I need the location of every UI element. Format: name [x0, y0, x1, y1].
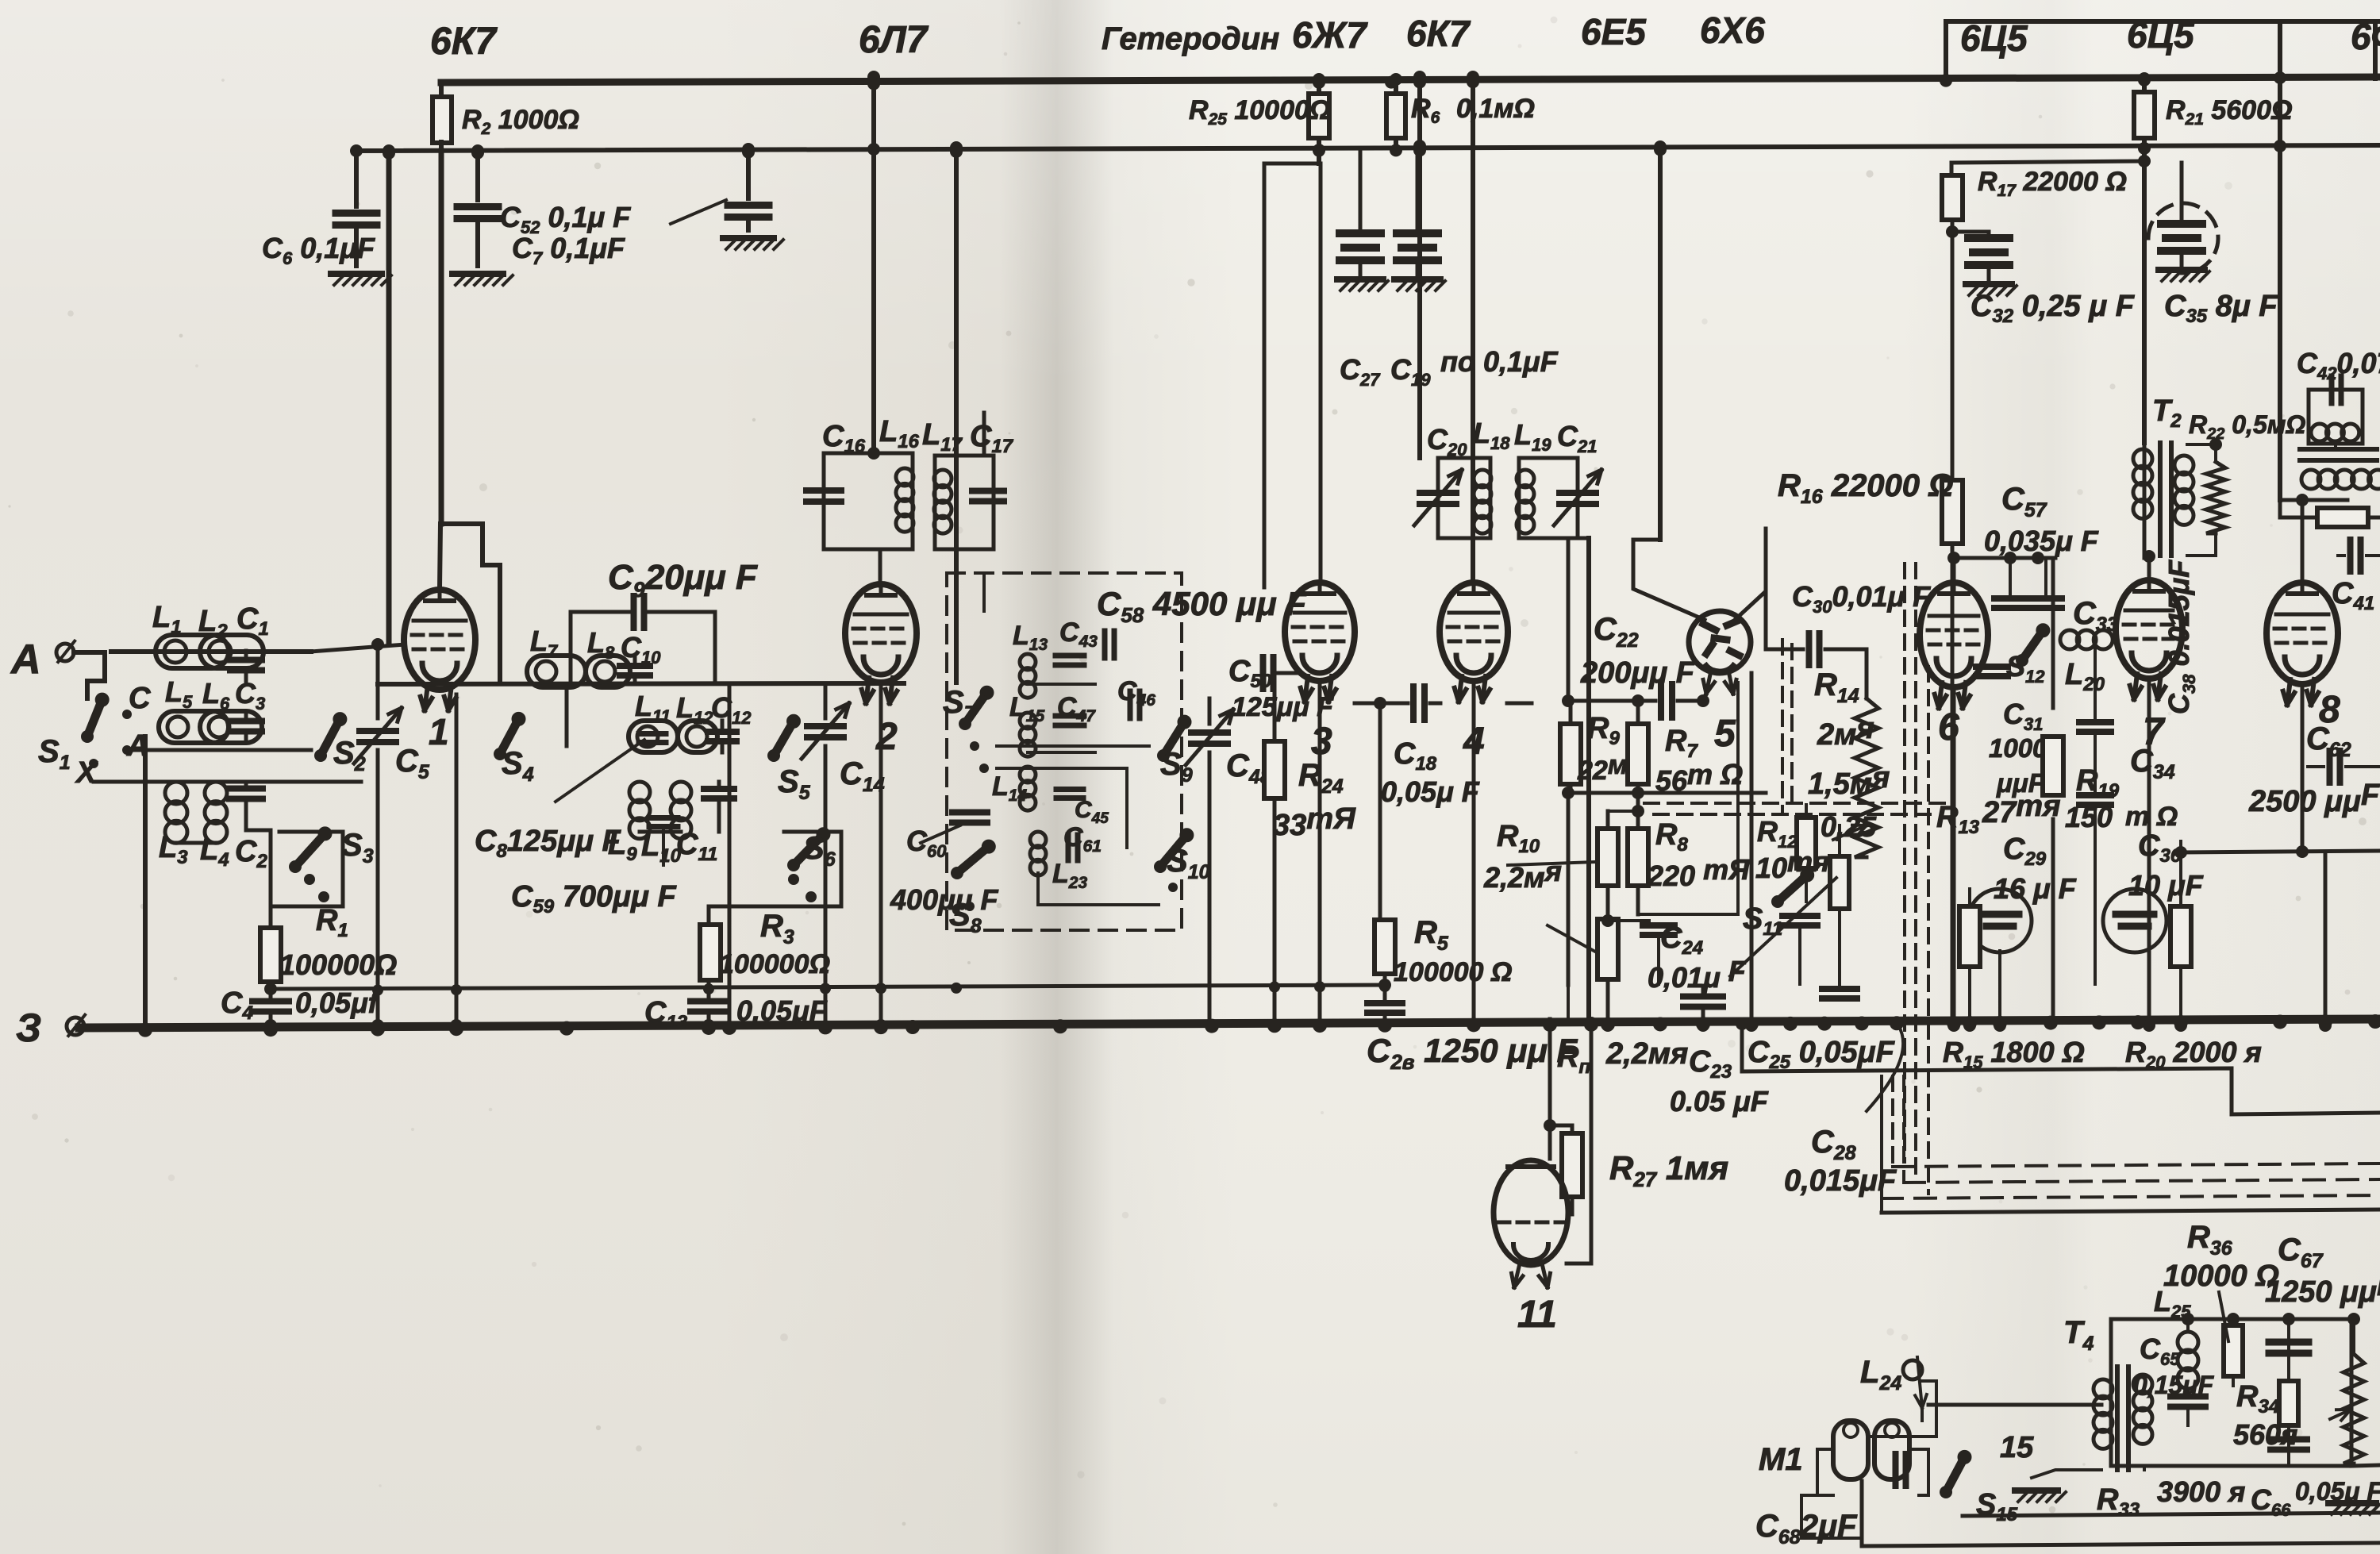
svg-text:R20 2000 я: R20 2000 я: [2125, 1036, 2262, 1072]
vacuum tube 1 (6К7): [404, 590, 475, 690]
wire: coil block joins: [176, 841, 216, 845]
ground at bottom right: [2328, 1500, 2376, 1506]
wire: stepped grid lead to tube 2: [441, 524, 500, 683]
electrolytic C29 16μF: [1968, 889, 2032, 952]
wire: network box: [2111, 1319, 2351, 1466]
wire: tube5 cathode down: [1750, 673, 1754, 1024]
wire: vertical x2702 down to T2: [2142, 161, 2147, 443]
resistor R12 10тЯ: [1797, 817, 1816, 868]
svg-text:0,035μ F: 0,035μ F: [1984, 525, 2099, 557]
wire: tube3 top lead: [1319, 565, 1323, 583]
resistor R36 10000Ω: [2224, 1325, 2243, 1376]
svg-text:6Ж7: 6Ж7: [1292, 14, 1368, 56]
wire: R9/R7 bottom join: [1568, 791, 1766, 795]
wire: tube4 connections: [1439, 702, 1440, 706]
svg-text:100000Ω: 100000Ω: [719, 949, 830, 979]
svg-text:А: А: [10, 637, 41, 683]
inductor L8: [586, 656, 630, 687]
inductor L2: [200, 635, 263, 668]
wire: anode supply bus (top): [441, 77, 2380, 83]
svg-text:1250 μμF: 1250 μμF: [2265, 1269, 2380, 1309]
wire: tube7 top lead: [2147, 556, 2151, 580]
wire: vertical x2092: [1658, 147, 1663, 540]
inductor L10: [671, 782, 691, 802]
wire: vertical x2002 (osc grid): [1586, 538, 1591, 1024]
resistor R6 0,1мΩ: [1390, 73, 1402, 86]
svg-text:0,05μF: 0,05μF: [736, 994, 828, 1027]
wire: plate lead tube1 vertical: [439, 151, 444, 524]
wire: screen bus to ground (left long vertical): [386, 151, 392, 644]
wire: tube2 plate vertical to C16: [871, 77, 876, 453]
output transformer T3: [2309, 390, 2363, 444]
inductor L11: [629, 721, 678, 752]
svg-text:R22 0,5мΩ: R22 0,5мΩ: [2189, 410, 2305, 443]
junction dots: AVC bus: [372, 985, 383, 996]
resistor R7 56тΩ: [1628, 724, 1648, 784]
capacitor C32 0,25μF (bypass): [1946, 225, 1959, 238]
svg-text:C920μμ F: C920μμ F: [608, 558, 758, 602]
resistor R5 100000Ω: [1378, 703, 1382, 920]
capacitor C65 0,15μF: [2170, 1394, 2205, 1400]
resistor R1 100000Ω: [269, 830, 273, 928]
switch S8: [957, 847, 989, 873]
wire: vertical x1856 to tube4 cap: [1471, 77, 1475, 583]
wire: dashed AVC screens: [1781, 640, 1784, 811]
svg-text:6: 6: [1938, 706, 1959, 748]
svg-text:C35 8μ F: C35 8μ F: [2164, 290, 2278, 327]
svg-text:0,015μF: 0,015μF: [1784, 1164, 1897, 1198]
resistor R10 2,2мΩ: [1598, 829, 1618, 886]
ground at S15: [2015, 1487, 2058, 1494]
capacitor C43: [1055, 653, 1084, 659]
svg-text:C6 0,1μF: C6 0,1μF: [262, 232, 375, 268]
inductor L14: [1020, 767, 1036, 783]
inductor L6: [200, 711, 262, 743]
resistor R9 22мΩ: [1560, 724, 1581, 784]
vacuum tube 7 (6Ц5): [2116, 580, 2182, 679]
capacitor C19 (bypass): [1416, 149, 1420, 190]
capacitor C66 0,05μF: [2270, 1437, 2307, 1443]
capacitor C14 (variable): [807, 723, 844, 729]
resistor R8 220тЯ: [1628, 829, 1648, 886]
svg-text:1: 1: [429, 711, 449, 752]
capacitor C9 20μμF: [571, 612, 629, 683]
wire: tube5 leads: [1633, 540, 1705, 620]
wire: tube1 cathode down: [455, 694, 459, 1024]
resistor R3 100000Ω: [707, 906, 711, 925]
switch S7: [965, 693, 987, 724]
capacitor near S11: [1782, 913, 1817, 919]
wire: AVC bus: [271, 985, 1385, 989]
capacitor C23 0,05μF: [1683, 994, 1723, 1000]
svg-text:0,05μ F: 0,05μ F: [1381, 775, 1480, 808]
svg-text:200μμ F: 200μμ F: [1580, 656, 1696, 690]
inductor L23: [1030, 832, 1046, 848]
svg-text:C682μF: C682μF: [1755, 1509, 1858, 1548]
svg-text:6К7: 6К7: [430, 21, 498, 63]
resistor R11 (Rп) 2,2мя: [1598, 919, 1618, 979]
svg-text:0,05μf: 0,05μf: [295, 987, 380, 1019]
wire: vertical x2452 chain down: [1951, 232, 1955, 479]
capacitor C50 125μμF (series): [1260, 657, 1267, 689]
capacitor C5 (variable): [376, 644, 380, 718]
wire: tube11 feed wires: [1548, 1019, 1552, 1159]
svg-text:0,1мΩ: 0,1мΩ: [1456, 94, 1535, 124]
vacuum tube 6 (6Ц5): [1920, 583, 1988, 687]
resistor R14 2мΩ/1,5мΩ (potentiometer): [1865, 649, 1869, 698]
wire: pointer curve: [1867, 1025, 1903, 1111]
capacitor C47: [1055, 714, 1084, 719]
svg-text:C52 0,1μ F: C52 0,1μ F: [500, 201, 631, 237]
switch S11: [1778, 875, 1807, 902]
svg-text:560я: 560я: [2233, 1418, 2297, 1451]
vacuum tube 11 (6Е5): [1494, 1160, 1568, 1265]
switch S2: [321, 719, 340, 756]
wire: grid row line: [311, 644, 405, 652]
switch S12: [2022, 630, 2043, 660]
node C contact: [122, 710, 132, 719]
switch S9: [1163, 722, 1185, 756]
resistor R21 5600Ω: [2138, 72, 2151, 85]
svg-text:10000 Ω: 10000 Ω: [2163, 1260, 2279, 1293]
wire: R2 top corner: [439, 80, 444, 85]
capacitor C6 0,1μF: [354, 151, 359, 206]
inductor L13: [1020, 654, 1036, 670]
IF transformer L17/C17: [935, 456, 984, 549]
wire: antenna lead-in: [74, 652, 105, 698]
wire: bottom network wires: [2351, 1465, 2380, 1466]
capacitor C67 1250μμF: [2269, 1339, 2309, 1346]
svg-text:R21 5600Ω: R21 5600Ω: [2166, 95, 2293, 129]
capacitor C25 (below S11): [1822, 986, 1857, 992]
resistor R19 150тΩ: [2043, 737, 2063, 795]
resistor R22 0,5мΩ (zigzag): [2206, 462, 2225, 533]
wire: node row above tube6: [1951, 556, 2055, 560]
wire: AVC link under tube5: [1567, 985, 1570, 1024]
wire: tube7 cathode: [2147, 679, 2151, 1024]
capacitor C59 700μμF: [649, 815, 678, 821]
svg-text:2500 μμF: 2500 μμF: [2248, 779, 2380, 818]
oscillator transformer C20/L18: [1438, 458, 1464, 538]
svg-text:100000 Ω: 100000 Ω: [1394, 957, 1512, 987]
capacitor C22 (series): [1568, 699, 1655, 703]
svg-text:16 μ F: 16 μ F: [1994, 872, 2077, 905]
svg-text:15: 15: [2000, 1431, 2034, 1464]
capacitor C2: [229, 786, 263, 792]
capacitor C52 0,1μF: [746, 149, 751, 198]
vacuum tube 5 (6Х6 duodiode): [1689, 611, 1751, 673]
vacuum tube 2 (6Л7): [845, 584, 917, 683]
wire: T4 to S15: [2032, 1470, 2101, 1478]
capacitor C34: [2079, 792, 2111, 798]
svg-text:R2 1000Ω: R2 1000Ω: [462, 105, 579, 138]
svg-text:5: 5: [1714, 713, 1736, 755]
capacitor C27 (bypass): [1359, 149, 1363, 232]
svg-text:2: 2: [875, 716, 898, 758]
capacitor C30 0,01μF (series): [1766, 648, 1803, 652]
switch S4: [500, 719, 519, 754]
svg-text:6Х6: 6Х6: [1700, 10, 1765, 51]
oscillator transformer L19/C21: [1519, 458, 1551, 538]
junction dots: ground bus: [138, 1023, 152, 1037]
svg-text:C: C: [129, 682, 151, 715]
svg-text:R27 1мя: R27 1мя: [1609, 1149, 1728, 1191]
potentiometer (tone): [2343, 1354, 2364, 1464]
svg-text:X: X: [75, 756, 98, 790]
wire: oscillator screen verticals: [1264, 162, 1321, 166]
wire: switch block inner wires: [982, 573, 986, 611]
wire: tube8 cathode: [2301, 684, 2305, 852]
capacitor C31 1000μμF: [1976, 664, 2008, 670]
svg-text:0,15μF: 0,15μF: [2133, 1371, 2215, 1399]
junction dots: screen bus: [383, 147, 395, 160]
svg-text:1000: 1000: [1989, 733, 2047, 763]
svg-text:7: 7: [2143, 711, 2166, 753]
switch S6: [794, 834, 824, 865]
switch S3: [295, 833, 325, 867]
switch S15: [1946, 1457, 1965, 1492]
inductor L1: [156, 635, 229, 668]
wire: input row: [111, 649, 311, 654]
wire: middle block verticals: [640, 830, 681, 834]
capacitor C60 400μμF: [952, 810, 987, 816]
capacitor C7 0,1μF: [475, 151, 480, 200]
switch S5: [774, 721, 794, 756]
capacitor C43b (series): [1102, 631, 1108, 658]
inductor L15: [1020, 713, 1036, 729]
capacitor C46: [1128, 691, 1133, 718]
resistor R24 33тΩ: [1264, 741, 1285, 798]
wire: tube6 cathode: [1952, 687, 1956, 1024]
capacitor C48 (variable): [1191, 729, 1228, 736]
IF transformer C16/L16: [867, 447, 880, 460]
resistor R13 27тЯ: [1830, 856, 1849, 909]
capacitor C45: [1056, 787, 1083, 792]
wire: top-right box: [1946, 21, 2380, 80]
svg-text:по 0,1μF: по 0,1μF: [1440, 345, 1559, 378]
wire: tube3 cathode: [1318, 681, 1322, 1024]
inductor L3: [165, 782, 187, 804]
svg-text:Гетеродин: Гетеродин: [1102, 21, 1279, 56]
inductor L20: [2060, 630, 2079, 649]
capacitor C18 0,05μF (series): [1355, 702, 1408, 706]
wire: tube8 top lead: [2280, 498, 2347, 502]
vacuum tube 8 (6Ф): [2267, 583, 2338, 684]
capacitor C10: [620, 663, 650, 669]
capacitor C3: [230, 718, 262, 725]
resistor R34 560Ω: [2279, 1381, 2298, 1425]
svg-text:6К7: 6К7: [1406, 13, 1471, 54]
wire: chassis/ground bus (З): [79, 1019, 2380, 1028]
wire: R8 bottom to tube5: [1638, 683, 1738, 914]
resistor R27 1мЯ: [1562, 1133, 1582, 1197]
wire: heater line: [1742, 1023, 2380, 1114]
svg-text:0.05 μF: 0.05 μF: [1670, 1085, 1769, 1117]
svg-text:6Е5: 6Е5: [1581, 11, 1647, 52]
resistor R17 22000Ω: [1951, 161, 2144, 163]
inductor L12: [678, 721, 717, 752]
svg-text:150: 150: [2065, 801, 2113, 833]
svg-text:3900 я: 3900 я: [2157, 1475, 2245, 1508]
capacitor C11: [704, 786, 734, 792]
vacuum tube 4 (6К7): [1440, 583, 1508, 681]
electrolytic C36 10μF: [2103, 889, 2167, 952]
wire: bottom dashed bundle: [1891, 1076, 1894, 1167]
wire: M1 wiring: [1817, 1449, 1833, 1495]
capacitor C12: [708, 729, 736, 735]
inductor L9: [629, 782, 650, 802]
capacitor C35 8μF (electrolytic bypass): [2180, 163, 2184, 218]
inductor L7: [527, 656, 586, 687]
switch S1: [87, 700, 102, 737]
capacitor C28 1250μμF: [1383, 985, 1387, 998]
resistor R20 2000Ω: [2170, 906, 2191, 967]
inductor L5: [159, 711, 229, 743]
resistor R15 1800Ω: [1959, 906, 1980, 967]
capacitor C4 0,05μf: [269, 982, 273, 997]
vacuum tube 3 (6Ж7): [1285, 583, 1355, 681]
capacitor C8 125μμF: [639, 731, 666, 737]
svg-text:т Ω: т Ω: [2125, 802, 2178, 832]
svg-text:11: 11: [1517, 1294, 1557, 1336]
svg-text:400μμ F: 400μμ F: [890, 883, 998, 916]
node X contact: [89, 759, 98, 768]
svg-text:C420,07μ: C420,07μ: [2297, 347, 2380, 383]
capacitor C68 2μF: [1893, 1454, 1899, 1486]
capacitor C13 0,05μF: [707, 980, 711, 997]
capacitor C1: [230, 657, 262, 664]
resistor R25 10000Ω: [1313, 73, 1325, 86]
svg-text:З: З: [16, 1006, 41, 1050]
junction dots: top bus: [867, 77, 880, 90]
inductor L25: [2178, 1332, 2198, 1352]
wire: vertical x1205: [954, 148, 959, 683]
wire: switch block outline (dashed): [947, 573, 1182, 930]
resistor R2 1000 Ω: [439, 83, 444, 98]
capacitor pair at tube6 top: [1994, 595, 2026, 602]
capacitor C24 0,01μF: [1608, 919, 1649, 922]
svg-text:2,2мя: 2,2мя: [1605, 1037, 1688, 1071]
capacitor C62 2500μμF: [2327, 751, 2333, 783]
wire: screen supply bus (second): [355, 145, 2380, 151]
node А contact: [122, 745, 132, 755]
svg-text:M1: M1: [1759, 1442, 1803, 1477]
capacitor C61 (series): [1066, 835, 1071, 860]
svg-text:6Л7: 6Л7: [859, 19, 929, 61]
wire: vertical x1789 to C20: [1417, 77, 1422, 458]
switch S10: [1160, 835, 1186, 867]
wire: tube2 top cap lead: [879, 549, 882, 586]
inductor L4: [205, 782, 227, 804]
wire: tube2 cathode: [879, 684, 883, 1024]
svg-text:10 μF: 10 μF: [2128, 869, 2204, 902]
